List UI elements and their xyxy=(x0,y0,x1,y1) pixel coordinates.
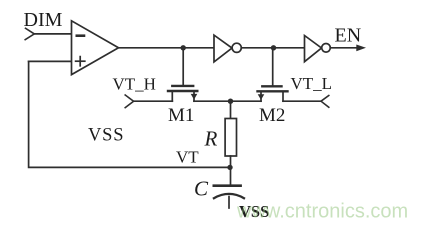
transistor M1 xyxy=(168,86,197,101)
VT_H input arrow xyxy=(125,95,133,108)
node junction VT xyxy=(227,165,232,170)
wire feedback (VT node to comparator + input) xyxy=(29,61,230,167)
VT_L input arrow xyxy=(321,96,329,108)
svg-text:DIM: DIM xyxy=(24,9,63,31)
svg-text:M2: M2 xyxy=(259,105,285,126)
transistor M2 xyxy=(258,86,288,101)
node junction R top xyxy=(228,99,233,104)
node junction at M2 gate xyxy=(271,45,276,50)
node junction at M1 gate xyxy=(181,45,186,50)
svg-text:VSS: VSS xyxy=(88,126,124,146)
wire feedback to comparator non-inverting input xyxy=(29,60,72,62)
svg-text:R: R xyxy=(204,127,218,151)
wire M1 drain to center node xyxy=(194,100,231,102)
wire inverter U2 to inverter U3 xyxy=(241,47,304,49)
svg-text:www.cntronics.com: www.cntronics.com xyxy=(236,201,408,223)
EN output arrowhead xyxy=(356,45,366,52)
resistor R xyxy=(225,119,236,157)
wire DIM to comparator inverting input xyxy=(34,33,71,35)
svg-text:M1: M1 xyxy=(168,105,194,126)
svg-text:EN: EN xyxy=(335,25,362,47)
svg-text:VT: VT xyxy=(176,148,199,167)
inverter U3 xyxy=(305,36,322,62)
comparator U1 xyxy=(72,21,119,75)
wire M1 gate lead xyxy=(182,48,184,85)
wire center node to resistor xyxy=(230,101,232,118)
inverter U2 xyxy=(214,35,232,62)
wire comparator output xyxy=(119,47,215,49)
svg-text:VT_H: VT_H xyxy=(113,75,156,94)
wire M2 gate lead xyxy=(272,48,274,85)
wire M2 source to center node xyxy=(231,100,262,102)
wire resistor to capacitor xyxy=(230,156,232,185)
svg-text:C: C xyxy=(194,177,209,201)
wire M2 drain to VT_L input xyxy=(283,100,321,102)
svg-text:VT_L: VT_L xyxy=(291,74,333,93)
wire VT_H to M1 source xyxy=(134,100,173,102)
DIM input arrow xyxy=(25,28,34,39)
wire EN output xyxy=(330,47,357,49)
capacitor C xyxy=(214,186,244,208)
